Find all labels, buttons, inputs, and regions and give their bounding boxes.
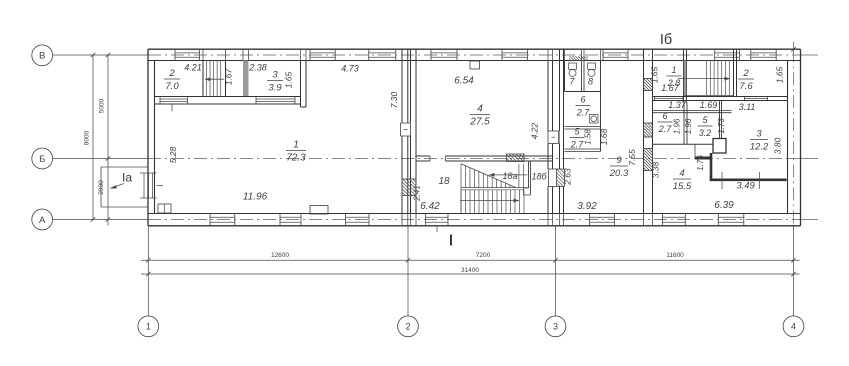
svg-text:11.96: 11.96: [243, 192, 268, 203]
svg-text:1: 1: [671, 65, 676, 75]
svg-text:11600: 11600: [666, 252, 684, 259]
svg-text:4.73: 4.73: [341, 64, 359, 74]
axis circle Б: [32, 148, 53, 169]
axis line 2 vertical: [407, 226, 409, 316]
stair S1 direction arrow: [205, 78, 224, 80]
window in top wall x750.8-776.2: [750, 49, 752, 60]
vent notch below top wall: [470, 61, 480, 69]
svg-text:31400: 31400: [461, 267, 479, 274]
stair S2 lower flight treads: [461, 189, 524, 191]
stair S3 right wall: [733, 49, 735, 96]
svg-text:3.80: 3.80: [773, 137, 783, 154]
wall junction marks across bottom wall: [401, 214, 403, 226]
svg-text:3.49: 3.49: [736, 181, 755, 192]
svg-text:1.58: 1.58: [584, 129, 593, 145]
window in bottom wall x345.5-369: [345, 214, 347, 226]
small window in axis2 wall: [400, 123, 412, 137]
axis circle 1: [138, 316, 159, 337]
axis line В horizontal: [53, 54, 148, 56]
svg-text:2.7: 2.7: [576, 107, 591, 117]
svg-text:Iб: Iб: [660, 32, 672, 48]
svg-text:12.2: 12.2: [750, 141, 769, 152]
svg-text:6.42: 6.42: [420, 201, 440, 212]
svg-text:1.69: 1.69: [700, 100, 718, 110]
svg-text:6: 6: [662, 111, 667, 121]
svg-text:Iа: Iа: [122, 171, 132, 185]
window in bottom wall x210-234.8: [209, 214, 211, 226]
svg-text:А: А: [39, 215, 46, 226]
wall between s3 rooms 6 and 5: [683, 103, 685, 145]
stair S2 upper flight: [461, 187, 529, 189]
window in bottom wall x280-301: [279, 214, 281, 226]
svg-text:1.65: 1.65: [775, 66, 785, 83]
svg-text:2.63: 2.63: [563, 168, 573, 186]
svg-text:3.92: 3.92: [577, 201, 597, 212]
corner cupboard: [158, 204, 171, 213]
svg-text:3.11: 3.11: [739, 102, 756, 112]
stair S3 left wall grey: [683, 49, 685, 102]
rooms 5-6 band: second partition: [653, 110, 732, 112]
partition under section3 top rooms: [653, 96, 788, 98]
section mark I label: [450, 235, 452, 246]
axis 4 dash-dot inside right wall: [793, 49, 795, 226]
axis line А horizontal: [53, 219, 148, 221]
window box in axis3 wall upper: [547, 131, 560, 144]
svg-text:2.38: 2.38: [248, 63, 267, 73]
room 5 bottom wall: [565, 148, 601, 150]
svg-text:27.5: 27.5: [469, 116, 490, 127]
top exterior wall: [148, 48, 801, 50]
svg-text:6.54: 6.54: [454, 76, 474, 87]
axis circle А: [32, 209, 53, 230]
window in partition left: [159, 97, 161, 105]
section 3 left wall: [643, 49, 645, 213]
duct shaft: [713, 139, 726, 154]
svg-text:В: В: [39, 51, 45, 62]
axis 4 stub above top wall: [793, 42, 795, 49]
toilet room 7: [569, 63, 577, 69]
window in bottom wall x718.3-743.8: [717, 214, 719, 226]
window in partition left part: [654, 97, 656, 101]
wall between stair and 18b: [528, 161, 530, 188]
svg-text:4: 4: [679, 168, 684, 179]
svg-text:18б: 18б: [531, 172, 547, 182]
svg-text:4: 4: [791, 322, 796, 332]
svg-text:2: 2: [405, 322, 410, 332]
svg-text:1.96: 1.96: [684, 118, 693, 134]
window in top wall x431-457: [430, 49, 432, 60]
svg-text:1.96: 1.96: [673, 118, 682, 134]
dimension line 31400: [141, 273, 800, 275]
svg-text:1.67: 1.67: [224, 68, 234, 85]
room 3 thick walls: [710, 153, 713, 181]
window in left wall: [140, 172, 157, 174]
window in partition right: [255, 97, 257, 105]
svg-text:7.55: 7.55: [627, 149, 637, 166]
svg-text:9: 9: [616, 155, 622, 166]
svg-text:1.65: 1.65: [650, 66, 660, 83]
window in top wall x603-628: [602, 49, 604, 60]
window in bottom wall x662.5-685.3: [662, 214, 664, 226]
left bay annex Ia outline: [101, 166, 148, 168]
stair S1 shaft walls: [202, 61, 204, 97]
svg-text:2.41: 2.41: [413, 185, 422, 202]
svg-text:2900: 2900: [98, 180, 105, 195]
svg-text:2.7: 2.7: [658, 124, 673, 134]
axis line Б horizontal: [53, 158, 148, 160]
svg-text:8: 8: [588, 77, 593, 87]
cut line stub below bottom wall: [436, 226, 438, 232]
svg-text:3: 3: [553, 322, 558, 332]
svg-text:5000: 5000: [99, 98, 106, 113]
room 3 right wall: [300, 61, 302, 108]
partition under rooms 2-3: [155, 96, 301, 98]
hatched piers on section3 left wall: [644, 79, 653, 91]
dim 3.49 with ticks: [721, 172, 723, 189]
svg-text:6.39: 6.39: [714, 200, 734, 211]
wall junction marks across top wall: [202, 49, 204, 60]
room 4 right wall: [547, 61, 549, 162]
stair S1 treads: [206, 61, 208, 97]
svg-text:20.3: 20.3: [609, 168, 629, 179]
window centre tick below partition: [171, 104, 173, 112]
bottom exterior wall: [148, 213, 801, 215]
svg-text:15.5: 15.5: [673, 181, 692, 192]
stair S2 break diagonal: [461, 164, 516, 188]
right exterior wall: [800, 49, 802, 226]
rooms 7-8 walls: [564, 61, 566, 92]
axis line 1 vertical: [147, 226, 149, 316]
hatched pier on axis2 wall: [402, 179, 416, 196]
expansion joint double wall on axis 2: [401, 49, 403, 213]
rooms 5-6 bottom wall s3: [653, 143, 722, 145]
window in bottom wall x589.6-614.4: [589, 214, 591, 226]
room 4 bottom wall with door opening: [416, 155, 430, 157]
svg-text:4.22: 4.22: [530, 122, 540, 139]
svg-text:3.9: 3.9: [268, 82, 282, 93]
thick wall stub: [695, 157, 711, 160]
grey pier right of corridor: [243, 61, 249, 97]
svg-text:7.30: 7.30: [389, 91, 399, 108]
axis line 3 vertical: [555, 226, 557, 316]
svg-text:7.6: 7.6: [739, 81, 753, 92]
axis line 4 vertical: [793, 226, 795, 316]
wall between rooms 6 and 5: [565, 126, 601, 128]
window in top wall x502-527.6: [501, 49, 503, 60]
axis3 double wall: [559, 49, 561, 213]
hatched pier in room4 bottom wall: [507, 154, 525, 162]
svg-text:3: 3: [272, 70, 278, 81]
window in top wall x714.7-739.5: [714, 49, 716, 60]
window centre tick at left wall: [157, 185, 164, 187]
dimension line 8000 vertical: [92, 55, 94, 220]
window in partition right part: [744, 97, 746, 101]
toilet room 8: [588, 63, 596, 69]
window in bottom wall x425.5-448: [425, 214, 427, 226]
dimension line 12600-7200-11600: [141, 259, 800, 261]
axis circle 3: [545, 316, 566, 337]
window in top wall x368.7-395.8: [368, 49, 370, 60]
svg-text:2.7: 2.7: [570, 139, 585, 149]
stair S3 treads: [706, 61, 708, 96]
room 5 right wall s3: [719, 101, 721, 139]
washbasin room 6: [590, 115, 599, 124]
svg-text:3: 3: [756, 129, 762, 140]
svg-text:7200: 7200: [476, 252, 491, 259]
svg-text:Б: Б: [39, 154, 45, 165]
svg-text:4.21: 4.21: [184, 63, 202, 73]
svg-text:72.3: 72.3: [286, 152, 306, 163]
axis circle 2: [398, 316, 419, 337]
svg-text:1.65: 1.65: [284, 71, 294, 88]
svg-text:3.2: 3.2: [699, 128, 712, 138]
svg-text:3.38: 3.38: [651, 161, 661, 178]
stair S3 arrow: [678, 78, 730, 80]
svg-text:7.0: 7.0: [165, 81, 179, 92]
axis circle 4: [783, 316, 804, 337]
svg-text:1.76: 1.76: [696, 155, 705, 171]
svg-text:2: 2: [742, 68, 749, 79]
svg-text:4: 4: [477, 104, 483, 115]
svg-text:12600: 12600: [271, 252, 289, 259]
svg-text:5.28: 5.28: [168, 146, 178, 163]
stair S2 upper arrow: [489, 174, 528, 176]
dimension line 5000-2900 vertical: [107, 55, 109, 226]
vent box on bottom wall: [310, 206, 328, 215]
left exterior wall: [147, 49, 149, 226]
svg-text:2: 2: [168, 68, 175, 79]
svg-text:18а: 18а: [502, 171, 517, 181]
svg-text:6: 6: [580, 95, 585, 105]
svg-text:18: 18: [438, 176, 450, 187]
window in top wall x175-199.6: [174, 49, 176, 60]
svg-text:1.67: 1.67: [661, 83, 680, 93]
window in top wall x310-335.2: [309, 49, 311, 60]
hatch in top wall over rooms 7-8: [569, 58, 572, 61]
box with hatch in axis3 wall lower: [547, 169, 565, 187]
stair S2 lower arrow: [460, 200, 519, 202]
svg-text:8000: 8000: [84, 130, 91, 145]
axis circle В: [32, 45, 53, 66]
svg-text:1: 1: [146, 322, 151, 332]
svg-text:1.68: 1.68: [599, 128, 609, 145]
svg-text:1: 1: [293, 140, 299, 151]
